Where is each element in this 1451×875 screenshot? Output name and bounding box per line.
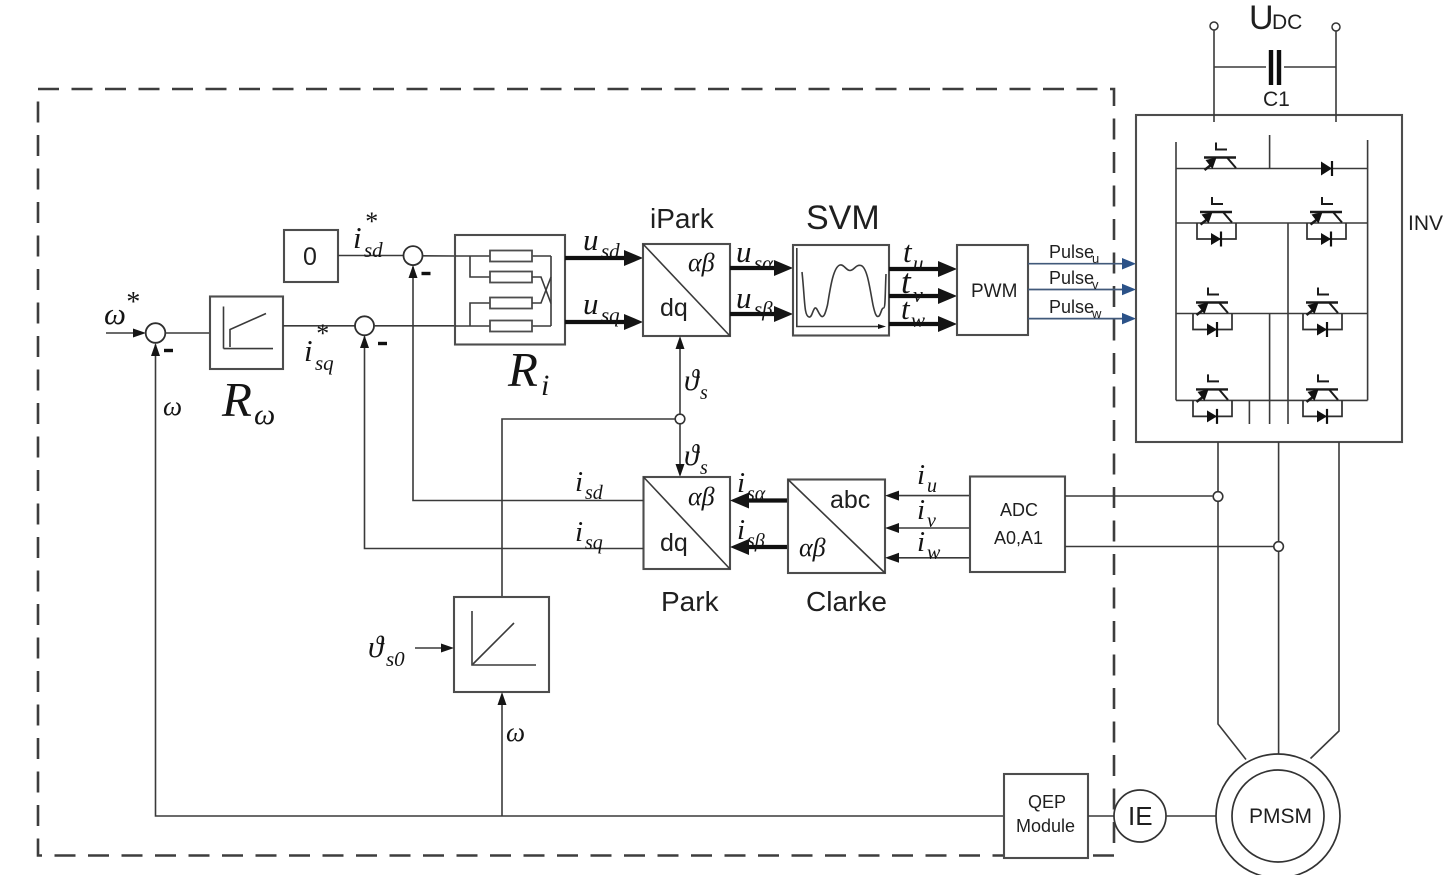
svg-text:s0: s0: [386, 647, 405, 671]
wire 0-box to S3: [338, 255, 404, 257]
summing junction S1: [146, 323, 166, 343]
svg-text:ω: ω: [104, 296, 126, 331]
svg-text:PMSM: PMSM: [1249, 805, 1312, 828]
wire u_s-alpha thick arrow iPark to SVM: [730, 260, 793, 276]
label U_DC: [1249, 0, 1302, 37]
node sense tap V: [1274, 542, 1284, 552]
wire tap row3 vertical: [1269, 314, 1271, 425]
wire i_u arrow ADC to Clarke: [885, 491, 970, 501]
transistor Q6: [1193, 374, 1232, 424]
transistor Q3: [1307, 197, 1346, 247]
svg-text:QEP: QEP: [1028, 792, 1066, 812]
svg-text:R: R: [507, 342, 538, 397]
svg-text:sβ: sβ: [754, 297, 773, 321]
label u_s-alpha: [736, 234, 774, 275]
svg-text:dq: dq: [660, 294, 688, 322]
svg-text:i: i: [917, 459, 925, 491]
svg-text:i: i: [737, 514, 745, 546]
block QEP Module: [1004, 774, 1088, 858]
svg-text:Pulse: Pulse: [1049, 297, 1094, 317]
diode D1: [1321, 161, 1332, 176]
svg-text:w: w: [911, 308, 925, 332]
svg-text:ϑ: ϑ: [368, 629, 385, 664]
svg-text:ϑ: ϑ: [684, 439, 701, 472]
svg-text:0: 0: [303, 243, 317, 271]
svg-text:t: t: [901, 291, 911, 326]
svg-text:αβ: αβ: [799, 533, 826, 562]
svg-text:ADC: ADC: [1000, 500, 1038, 520]
wire DC left drop: [1213, 30, 1215, 122]
svg-text:sd: sd: [585, 482, 604, 504]
label i_sq: [575, 516, 603, 554]
wire speed feedback QEP to S1: [151, 343, 1004, 816]
label t_u: [903, 234, 924, 275]
label theta_s upper: [684, 364, 708, 404]
transistor Q4: [1193, 288, 1232, 338]
transistor Q5: [1303, 288, 1342, 338]
inverter block INV outline: [1136, 115, 1402, 442]
svg-text:*: *: [125, 287, 139, 318]
label i_sd: [575, 466, 604, 504]
label t_w: [901, 291, 925, 332]
node sense tap U: [1213, 492, 1223, 502]
svg-text:u: u: [583, 286, 599, 321]
current regulator block Ri: [455, 235, 565, 345]
regulator block Rw: [210, 297, 283, 370]
minus sign at S1: [164, 349, 173, 352]
transistor Q7: [1303, 374, 1342, 424]
svg-text:Pulse: Pulse: [1049, 242, 1094, 262]
wire phase W to motor: [1311, 442, 1340, 759]
wire ADC sense line to phase U node: [1065, 495, 1212, 497]
capacitor C1: [1271, 50, 1279, 85]
svg-text:w: w: [927, 542, 941, 564]
summing junction S2: [355, 316, 374, 335]
svg-text:ϑ: ϑ: [684, 364, 701, 397]
svg-text:αβ: αβ: [688, 248, 715, 277]
wire bridge row 3: [1176, 313, 1368, 315]
minus sign at S3: [422, 272, 431, 275]
svg-text:Pulse: Pulse: [1049, 268, 1094, 288]
wire Pulse_w blue arrow: [1028, 313, 1136, 325]
svg-text:*: *: [315, 319, 328, 348]
svg-text:sq: sq: [315, 351, 334, 375]
svg-text:ω: ω: [163, 391, 182, 421]
label Pulse_u: [1049, 242, 1099, 266]
svg-text:i: i: [575, 516, 583, 548]
svg-text:u: u: [736, 234, 752, 269]
svg-text:R: R: [221, 372, 252, 427]
svg-text:SVM: SVM: [806, 199, 880, 237]
label i_u: [917, 459, 937, 497]
svg-text:αβ: αβ: [688, 482, 715, 511]
transform block Clarke: [788, 480, 885, 574]
wire right DC rail: [1367, 140, 1369, 400]
wire QEP to IE: [1088, 815, 1114, 817]
wire Pulse_v blue arrow: [1028, 284, 1136, 296]
wire i_v arrow ADC to Clarke: [885, 523, 970, 533]
node DC terminal plus: [1210, 22, 1218, 30]
node theta junction: [675, 414, 685, 424]
svg-text:sq: sq: [585, 532, 603, 554]
wire i_sq feedback Park to S2: [360, 335, 644, 548]
wire theta_s0 input arrow: [415, 644, 454, 653]
wire ADC sense line to phase V node: [1065, 546, 1274, 548]
svg-text:DC: DC: [1272, 11, 1302, 34]
wire DC right drop: [1335, 31, 1337, 122]
svg-text:Clarke: Clarke: [806, 586, 887, 617]
integrator block theta calculator: [454, 597, 549, 692]
svg-text:s: s: [700, 457, 708, 479]
svg-text:v: v: [913, 282, 923, 307]
svg-text:iPark: iPark: [650, 203, 715, 234]
svg-text:u: u: [736, 280, 752, 315]
transform block Park: [644, 477, 731, 569]
constant block 0: [284, 230, 338, 282]
wire Rw to S2: [283, 325, 355, 327]
block PWM: [957, 245, 1028, 335]
svg-text:i: i: [737, 467, 745, 499]
svg-text:i: i: [353, 220, 362, 255]
svg-text:sd: sd: [601, 239, 620, 263]
svg-text:u: u: [927, 475, 937, 497]
svg-text:w: w: [1091, 306, 1102, 321]
label i_w: [917, 526, 941, 564]
svg-text:v: v: [1092, 277, 1099, 292]
transform block iPark: [643, 244, 730, 336]
wire bridge row 4: [1176, 399, 1368, 401]
wire left DC rail: [1175, 142, 1177, 400]
svg-text:U: U: [1249, 0, 1274, 37]
label theta_s0: [368, 629, 405, 671]
label u_s-beta: [736, 280, 773, 321]
label i_v: [917, 494, 936, 532]
svg-text:u: u: [583, 222, 599, 257]
svg-text:v: v: [927, 510, 936, 532]
dashed controller boundary: [38, 89, 1114, 856]
label Ri: [507, 342, 549, 402]
svg-text:sβ: sβ: [747, 530, 765, 552]
wire i_s-beta thick arrow Clarke to Park: [730, 539, 788, 555]
wire bridge row 1: [1176, 168, 1368, 170]
wire u_sq thick arrow Ri to iPark: [565, 314, 643, 330]
wire omega into integrator from feedback: [498, 692, 507, 816]
wire S3 to Ri upper input: [423, 255, 456, 257]
wire S2 to Ri lower input: [374, 325, 455, 327]
wire capacitor link: [1214, 66, 1336, 68]
transistor Q1: [1204, 143, 1236, 171]
wire u_sd thick arrow Ri to iPark: [565, 250, 643, 266]
summing junction S3: [404, 246, 423, 265]
label i-sd-ref: [353, 207, 383, 262]
svg-text:i: i: [575, 466, 583, 498]
svg-text:sα: sα: [754, 251, 774, 275]
wire Pulse_u blue arrow: [1028, 258, 1136, 270]
wire integrator output to theta node: [502, 419, 675, 597]
svg-text:dq: dq: [660, 529, 688, 557]
svg-text:Park: Park: [661, 586, 720, 617]
label i_s-beta: [737, 514, 765, 552]
wire i_s-alpha thick arrow Clarke to Park: [730, 493, 788, 509]
svg-text:u: u: [913, 251, 924, 275]
svg-text:ω: ω: [506, 717, 525, 747]
label u_sq: [583, 286, 620, 327]
wire tap row1 stub: [1269, 135, 1271, 169]
label Rw: [221, 372, 275, 431]
svg-text:sd: sd: [364, 238, 383, 262]
sensor IE circle: [1114, 790, 1166, 842]
transistor Q2: [1197, 197, 1236, 247]
svg-text:i: i: [541, 369, 549, 402]
label u_sd: [583, 222, 620, 263]
svg-text:INV: INV: [1408, 212, 1443, 235]
svg-text:i: i: [917, 526, 925, 558]
node DC terminal minus: [1332, 23, 1340, 31]
wire i_sd feedback Park to S3: [409, 265, 644, 500]
label theta_s lower: [684, 439, 708, 479]
wire IE to PMSM: [1166, 815, 1216, 817]
wire i_w arrow ADC to Clarke: [885, 553, 970, 563]
wire phase U to motor: [1218, 442, 1246, 760]
wire bridge row 2: [1176, 222, 1368, 224]
minus sign at S2: [378, 342, 387, 345]
svg-text:abc: abc: [830, 486, 870, 514]
block ADC A0,A1: [970, 477, 1065, 573]
svg-text:sq: sq: [601, 303, 620, 327]
svg-text:IE: IE: [1128, 801, 1153, 831]
wire phase V to motor: [1278, 442, 1280, 754]
wire u_s-beta thick arrow iPark to SVM: [730, 306, 793, 322]
svg-text:s: s: [700, 382, 708, 404]
wire omega-ref input arrow: [106, 329, 146, 338]
wire t_v thick arrow SVM to PWM: [889, 288, 957, 304]
wire theta_s down into Park: [676, 424, 685, 477]
label Pulse_v: [1049, 268, 1099, 292]
wire S1 to Rw: [165, 332, 210, 334]
svg-text:u: u: [1092, 251, 1099, 266]
svg-text:C1: C1: [1263, 88, 1290, 111]
svg-text:PWM: PWM: [971, 281, 1017, 302]
svg-text:i: i: [917, 494, 925, 526]
wire t_u thick arrow SVM to PWM: [889, 261, 957, 277]
svg-text:sα: sα: [747, 483, 766, 505]
wire theta_s up into iPark: [676, 336, 685, 415]
label i-sq-ref: [304, 319, 334, 375]
svg-text:i: i: [304, 333, 313, 368]
label t_v: [901, 262, 923, 307]
svg-text:*: *: [364, 207, 377, 236]
wire tap row4 stub: [1248, 400, 1250, 424]
node omega-ref label: [104, 287, 139, 331]
modulator block SVM: [793, 245, 889, 336]
motor PMSM: [1216, 754, 1340, 875]
label i_s-alpha: [737, 467, 766, 505]
svg-text:ω: ω: [254, 398, 275, 431]
svg-text:Module: Module: [1016, 816, 1075, 836]
svg-text:A0,A1: A0,A1: [994, 528, 1043, 548]
wire t_w thick arrow SVM to PWM: [889, 316, 957, 332]
wire tap row2 vertical: [1287, 223, 1289, 424]
label Pulse_w: [1049, 297, 1102, 321]
